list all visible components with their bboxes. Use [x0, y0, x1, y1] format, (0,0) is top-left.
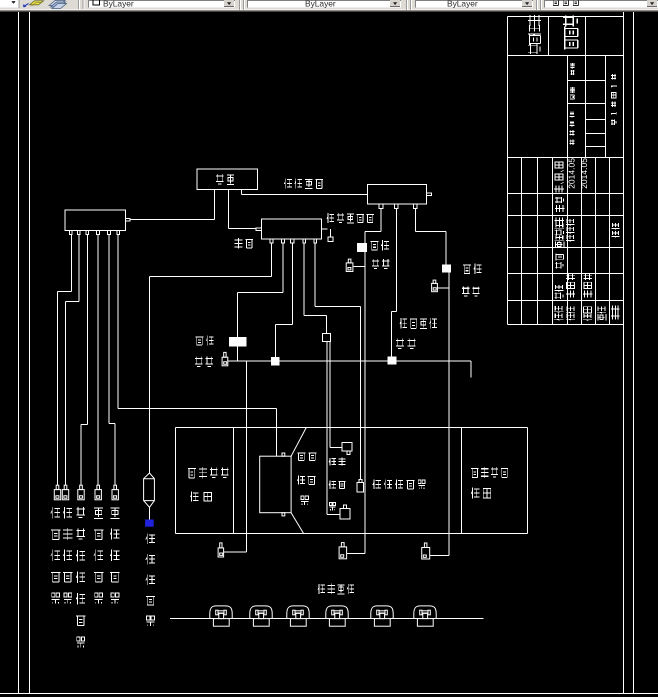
- label 跑偏 2: [463, 264, 482, 274]
- wire: substation to junction-device net: [214, 190, 216, 220]
- wire: horizontal into tee left stub: [229, 228, 257, 230]
- wire chain r2: controller to rope junction sq2: [392, 209, 397, 357]
- tear sensor lower box: [340, 505, 350, 519]
- toolbar icon: make object layer current: [24, 1, 44, 7]
- sheet border inner-left line: [29, 12, 31, 694]
- title 年月日: [554, 162, 564, 192]
- label 分站: [216, 174, 234, 185]
- belt sway switch box 3 跑偏开关 (horizontal): [229, 337, 246, 346]
- title 更改文件号: [554, 218, 564, 248]
- label 胶带机头: [188, 467, 229, 478]
- label 控制电缆: [284, 178, 323, 188]
- tee box left stub pin: [256, 228, 262, 230]
- wire tee-p4 to tear sensor junction: [304, 243, 326, 333]
- rope switch junction sq1: [271, 357, 280, 366]
- coal pile sensor capsule 堆煤传感器: [144, 473, 155, 520]
- loudspeaker telephone line: [170, 618, 484, 620]
- wire tee-p5 to material-area sensor: [315, 243, 361, 479]
- label 开关 3: [195, 357, 213, 367]
- title 质量: [570, 87, 575, 100]
- left box bottom pins: [69, 230, 119, 234]
- spray solenoid valve box 洒水电磁阀: [328, 237, 333, 242]
- label 器 speed: [301, 496, 309, 505]
- title 签名: [555, 197, 564, 212]
- sensor on chain r1: [346, 259, 353, 271]
- title 工艺: [611, 306, 620, 320]
- label 速度: [297, 453, 316, 461]
- title 分区: [555, 254, 563, 269]
- title 处数: [554, 285, 563, 299]
- title 审核: [597, 307, 606, 321]
- rope switch junction sq2: [387, 356, 396, 364]
- wire: control cable 控制电缆: [242, 190, 368, 195]
- label 拉绳急停: [400, 318, 437, 329]
- voltage sensor symbol D: [95, 485, 101, 500]
- sheet border outer-left line: [18, 12, 20, 694]
- title 吴月鹏 1: [566, 274, 575, 298]
- sensor S3 below conveyor: [422, 543, 430, 559]
- wire w3: pin3 to sensor C: [81, 235, 88, 486]
- sensor S2 below conveyor: [339, 543, 347, 559]
- material sensor probe: [357, 480, 364, 492]
- svg-text:ByLayer: ByLayer: [103, 0, 134, 8]
- junction device box (left): [65, 210, 126, 230]
- toolbar separator 4: [536, 0, 542, 10]
- svg-text:2014.05: 2014.05: [579, 158, 589, 189]
- infrared sensor symbol C: [78, 485, 84, 500]
- sheet border outer-right line: [633, 12, 635, 694]
- label 扩音电话: [318, 584, 354, 595]
- wire: left box stub to substation wire: [130, 219, 215, 221]
- label 开关 4: [396, 338, 416, 348]
- current sensor symbol E: [112, 485, 118, 500]
- title 阶段标记: [570, 112, 575, 146]
- wire rope to sensor S1 below conveyor: [224, 361, 247, 552]
- title 输送机: [563, 16, 578, 50]
- conveyor outline: [176, 428, 528, 534]
- toolbar separator 3: [406, 0, 412, 10]
- toolbar combo: lineweight ByLayer: [415, 0, 533, 8]
- wire tee-p3 to rope junction sq1: [276, 243, 293, 357]
- label 开关 2: [462, 286, 480, 296]
- label 上人红外传感器: [76, 507, 85, 647]
- controller box right stub pin: [427, 193, 432, 196]
- title 制图: [583, 307, 592, 321]
- label 传感 speed: [297, 475, 315, 484]
- toolbar separators: [78, 0, 85, 9]
- sheet border inner-right line: [623, 12, 625, 694]
- label 电压传感器: [94, 508, 103, 603]
- label 传感 tear: [329, 480, 346, 488]
- label 滚筒 tail: [471, 488, 491, 499]
- toolbar icon: layer properties: [49, 1, 67, 9]
- wire chain r3: controller to belt-sway switch 2 and down to S3: [415, 209, 449, 556]
- label 物料传感器: [373, 480, 425, 490]
- wire w2: pin2 to sensor B: [66, 235, 80, 486]
- label 滚筒 head: [190, 492, 211, 502]
- label 洒水电磁阀: [327, 213, 374, 223]
- controller box bottom pins: [379, 204, 417, 209]
- telephone symbol 4: [326, 606, 348, 626]
- telephone symbol 1: [210, 606, 232, 626]
- label 跑偏 1: [371, 240, 390, 250]
- tail drum box 胶带机尾滚筒: [462, 428, 528, 534]
- title 标准化: [566, 219, 575, 242]
- svg-text:2014.05: 2014.05: [567, 158, 577, 189]
- temperature sensor symbol A: [54, 485, 60, 500]
- head drum box 胶带机头滚筒: [176, 428, 234, 534]
- label 开关 1: [372, 259, 389, 269]
- svg-text:ByLayer: ByLayer: [447, 0, 478, 8]
- wire w5: pin5 to sensor E: [109, 235, 115, 486]
- title 太原理工: [528, 15, 541, 54]
- wire w4: pin4 to sensor D: [97, 235, 99, 486]
- label 胶带机尾: [471, 467, 508, 478]
- svg-text:ByLayer: ByLayer: [305, 0, 336, 8]
- speed sensor box 速度传感器: [260, 428, 307, 534]
- title 批准: [611, 223, 619, 238]
- wire: substation down to tee: [228, 190, 230, 229]
- wire tee right stub to spray solenoid valve: [322, 229, 331, 237]
- wire chain r1: controller to belt-sway switch 1 and down: [347, 209, 382, 554]
- tear-sensor junction square: [323, 333, 331, 341]
- toolbar combo: plot style: [544, 0, 658, 8]
- coal pile sensor blue marker: [145, 520, 154, 527]
- label 器 tear: [330, 502, 336, 510]
- toolbar separator 2: [239, 0, 245, 10]
- tear sensor upper box 撕裂传感器: [342, 443, 352, 455]
- label 堆煤传感器: [146, 534, 155, 626]
- toolbar background: [0, 0, 658, 10]
- toolbar text plot style: [552, 0, 579, 6]
- sensor at rope left end: [222, 352, 228, 365]
- title block lower grid: [508, 158, 624, 325]
- sensor on chain r2: [432, 280, 438, 292]
- wire w6: pin6 to speed sensor: [118, 235, 276, 456]
- wire tear-sensor pair from junction: [327, 342, 342, 515]
- controller box (top right): [368, 185, 427, 205]
- telephone symbol 2: [250, 606, 272, 626]
- label 温度传感器: [51, 507, 60, 603]
- title 比例: [570, 63, 574, 75]
- title block outline: [508, 17, 624, 325]
- wire w1: pin1 to smoke/temp sensor A: [58, 235, 72, 486]
- pull-rope emergency stop line: [228, 361, 471, 378]
- belt sway switch box 2 跑偏开关: [442, 265, 451, 273]
- label 三通: [235, 238, 253, 249]
- substation box 分站: [197, 169, 258, 190]
- toolbar combo: linetype ByLayer: [247, 0, 401, 8]
- label 电流传感器: [110, 508, 119, 603]
- wire tee-p1 to coal-pile sensor: [150, 243, 272, 473]
- title 吴月鹏 2: [583, 274, 592, 298]
- toolbar combo1: [0, 0, 20, 8]
- telephone symbol 5: [371, 606, 393, 626]
- tee box 三通: [262, 219, 322, 239]
- label 跑偏 3: [196, 336, 214, 346]
- toolbar combo: color ByLayer: [88, 0, 235, 8]
- telephone symbol 3: [287, 606, 309, 626]
- sensor S1 below conveyor: [218, 543, 224, 557]
- title 共1张第1张: [611, 74, 616, 125]
- title 标记: [554, 306, 563, 320]
- sheet border bottom line: [0, 693, 658, 695]
- telephone symbol 6: [414, 606, 436, 626]
- left box right stub pin: [126, 219, 131, 222]
- label 烟雾传感器: [63, 507, 72, 603]
- label 撕裂: [329, 458, 346, 466]
- tee box bottom pins: [270, 239, 317, 243]
- wire tee-p2 to belt-sway switch 3: [238, 243, 284, 361]
- smoke sensor symbol B: [62, 485, 68, 500]
- title 设计: [566, 307, 575, 321]
- belt sway switch box 1 跑偏开关: [357, 243, 367, 252]
- title block upper grid: [508, 17, 624, 158]
